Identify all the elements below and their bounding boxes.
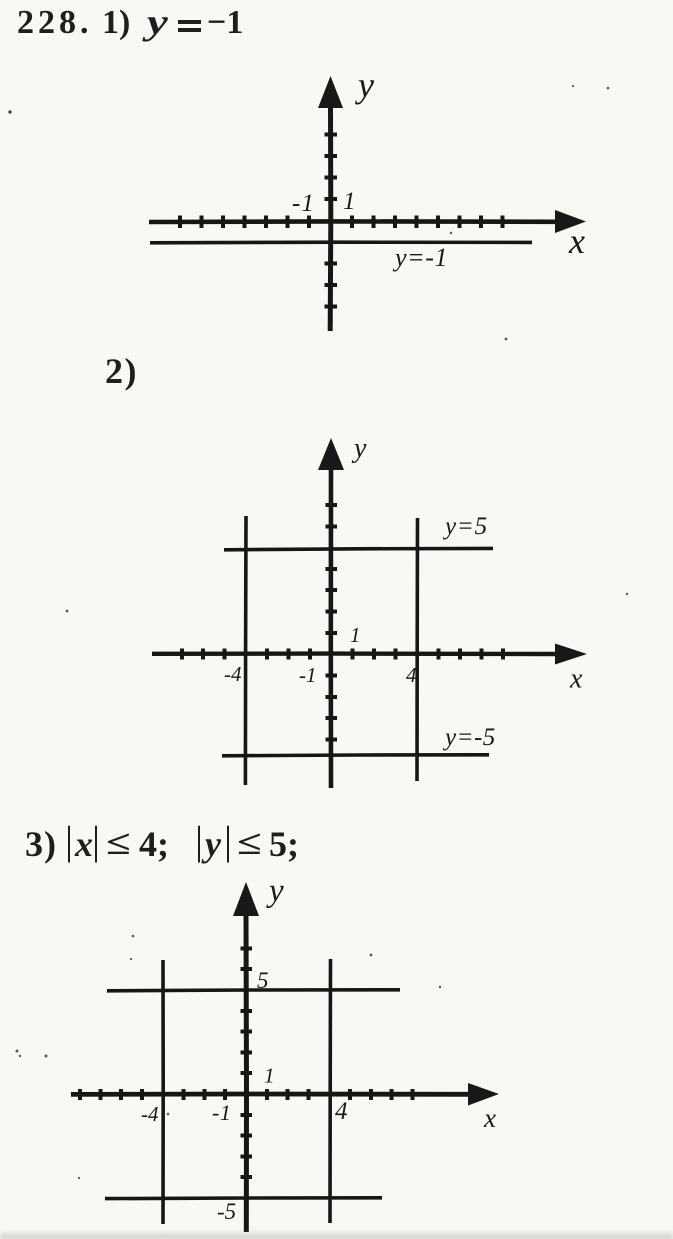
g1 line y=-1 (150, 240, 532, 244)
g3 x-axis arrowhead (468, 1083, 499, 1106)
g1 x-axis (149, 219, 560, 224)
heading 2) (105, 353, 138, 389)
g3 line y=5 (107, 990, 400, 991)
svg-text:y=5: y=5 (442, 513, 488, 540)
g2 y-axis arrowhead (318, 438, 344, 470)
g3 line x=-4 (161, 960, 165, 1224)
svg-text:x: x (568, 221, 585, 261)
svg-text:4: 4 (406, 663, 417, 687)
svg-text:x: x (483, 1103, 496, 1133)
svg-text:-1: -1 (299, 663, 317, 687)
svg-text:1: 1 (264, 1064, 275, 1088)
g3 x-axis (71, 1092, 472, 1097)
g3 line y=-5 (105, 1196, 382, 1200)
svg-text:5: 5 (257, 968, 269, 993)
g2 x-axis (152, 651, 558, 656)
g1 x-axis arrowhead (555, 210, 586, 233)
svg-text:4: 4 (335, 1098, 348, 1125)
svg-text:y=-5: y=-5 (442, 724, 496, 751)
svg-text:-4: -4 (141, 1102, 159, 1126)
g1 y-axis ticks (325, 135, 338, 307)
heading 3) |x|<=4; |y|<=5; (25, 826, 57, 862)
svg-text:y: y (355, 65, 374, 105)
g3 y-axis ticks (241, 949, 253, 1178)
g2 x-axis arrowhead (555, 644, 587, 665)
svg-text:1: 1 (343, 188, 356, 215)
g3 x-axis ticks (80, 1089, 413, 1100)
g3 y-axis (244, 914, 250, 1232)
g2 line y=5 (224, 548, 493, 549)
svg-text:1: 1 (350, 623, 361, 647)
heading line: 228. 1) y = -1 (17, 6, 93, 40)
g2 line x=4 (415, 518, 419, 781)
svg-text:-1: -1 (212, 1100, 231, 1125)
svg-text:y=-1: y=-1 (392, 243, 448, 272)
g2 line x=-4 (244, 516, 248, 785)
g1 y-axis (328, 104, 334, 331)
svg-text:x: x (569, 664, 583, 695)
svg-text:-5: -5 (217, 1199, 236, 1224)
g2 x-axis ticks (182, 649, 503, 660)
g1 y-axis arrowhead (318, 76, 343, 108)
g3 y-axis arrowhead (233, 882, 259, 916)
svg-text:-1: -1 (292, 190, 315, 217)
svg-text:-4: -4 (224, 662, 242, 686)
bottom scan shadow (0, 1230, 673, 1239)
g1 x-axis ticks (180, 216, 503, 229)
svg-text:y: y (351, 433, 367, 464)
svg-text:y: y (266, 873, 284, 909)
g2 y-axis (328, 468, 333, 788)
g2 line y=-5 (222, 755, 489, 756)
g3 line x=4 (328, 959, 332, 1223)
g2 y-axis ticks (326, 505, 338, 740)
